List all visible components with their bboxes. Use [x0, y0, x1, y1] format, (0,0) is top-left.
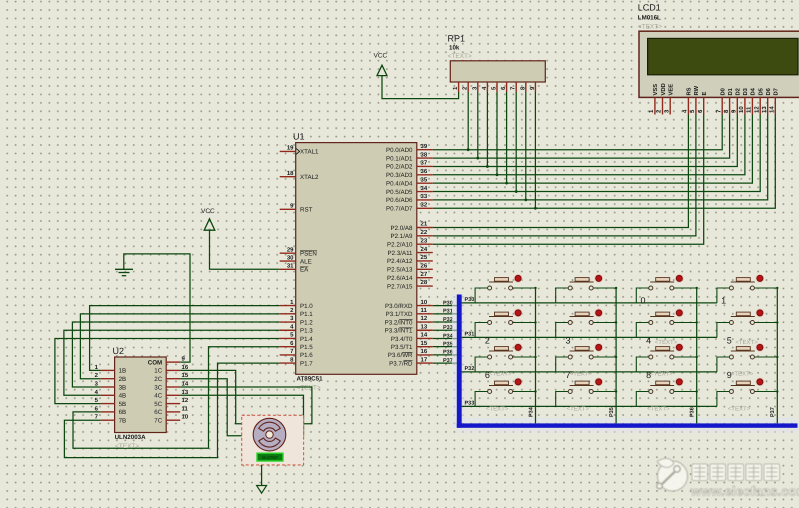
pin 39 (P0.0/AD0) of U1	[386, 143, 433, 154]
wire P3.5 to bus, net P35	[433, 341, 457, 347]
svg-text:VCC: VCC	[374, 53, 388, 60]
pin 5 of RP1	[491, 82, 498, 92]
svg-text:P31: P31	[465, 332, 475, 338]
key label 4	[646, 336, 651, 346]
svg-text:5: 5	[727, 336, 732, 346]
svg-text:XTAL2: XTAL2	[300, 174, 319, 181]
svg-text:P1.5: P1.5	[300, 344, 313, 351]
power terminal VCC (RP1)	[374, 53, 388, 76]
svg-text:RST: RST	[300, 207, 313, 214]
button row1 col1	[475, 274, 537, 303]
wire RP1 pin 9 to P0.7 net	[534, 92, 537, 210]
pin 13 (D6) of LCD1	[761, 87, 772, 114]
key label 5	[727, 336, 732, 346]
svg-text:P36: P36	[443, 350, 453, 356]
svg-text:D4: D4	[751, 87, 757, 95]
pin 19 (XTAL1) of U1	[280, 145, 319, 156]
wire RP1 pin 8 to P0.6 net	[524, 92, 527, 201]
svg-text:4B: 4B	[119, 393, 127, 400]
keypad row wire P31	[462, 332, 717, 338]
wire P3.4 to bus, net P34	[433, 333, 457, 339]
svg-text:18: 18	[287, 170, 294, 177]
svg-text:ALE: ALE	[300, 258, 312, 265]
pin 6 (P1.5) of U1	[280, 340, 314, 351]
svg-text:28: 28	[421, 279, 428, 286]
keypad column wire P34	[528, 288, 535, 423]
label U1 TEXT	[297, 385, 321, 392]
svg-text:P32: P32	[465, 366, 475, 372]
pin 22 (P2.1/A9) of U1	[390, 229, 432, 240]
svg-text:3: 3	[290, 315, 294, 322]
svg-text:29: 29	[287, 246, 294, 253]
wire RP1 pin 5 to P0.3 net	[496, 92, 499, 176]
wire P3.1 to bus, net P31	[433, 309, 457, 315]
pin 10 (7C output) of U2	[154, 414, 189, 425]
svg-text:2: 2	[656, 109, 663, 113]
svg-text:4: 4	[646, 336, 651, 346]
pin 3 (P1.2) of U1	[280, 315, 314, 326]
pin 27 (P2.6/A14) of U1	[387, 271, 433, 282]
wire ground to U2 COM pin 9	[124, 254, 190, 362]
svg-text:1: 1	[721, 295, 726, 305]
svg-text:38: 38	[421, 151, 428, 158]
svg-text:P0.2/AD2: P0.2/AD2	[386, 164, 413, 171]
pin 4 (1B input 4) of U2	[95, 389, 127, 400]
svg-text:U2: U2	[113, 346, 125, 356]
wire P0.5 to LCD D5	[433, 115, 760, 192]
svg-text:<TEXT>: <TEXT>	[728, 406, 751, 413]
button row3 col3	[636, 343, 698, 372]
pin 2 (1B input 2) of U2	[95, 372, 127, 383]
pin 16 (1C output) of U2	[154, 364, 189, 375]
svg-text:4: 4	[290, 323, 294, 330]
button row2 col3	[636, 309, 698, 338]
svg-text:P37: P37	[770, 407, 776, 417]
svg-text:RW: RW	[694, 85, 700, 95]
svg-text:VDD: VDD	[661, 83, 667, 95]
svg-text:3C: 3C	[154, 384, 162, 391]
svg-text:26: 26	[421, 263, 428, 270]
svg-text:0: 0	[641, 295, 646, 305]
svg-text:14: 14	[421, 332, 428, 339]
svg-text:10: 10	[182, 414, 189, 421]
motor value label box	[257, 453, 283, 461]
svg-text:P3.2/INT0: P3.2/INT0	[385, 319, 413, 326]
key label 1	[721, 295, 726, 305]
svg-text:23: 23	[421, 237, 428, 244]
key label 9	[727, 370, 732, 380]
button row1 col2	[556, 274, 618, 303]
svg-text:34: 34	[421, 185, 428, 192]
wire P0.7 to LCD D7	[433, 115, 776, 209]
svg-text:P33: P33	[465, 401, 475, 407]
pin 14 (P3.4/T0) of U1	[391, 332, 433, 343]
pin 35 (P0.4/AD4) of U1	[386, 176, 433, 187]
pin 26 (P2.5/A13) of U1	[387, 263, 433, 274]
svg-text:E: E	[702, 92, 708, 96]
svg-text:39: 39	[421, 143, 428, 150]
key label 8	[646, 370, 651, 380]
svg-text:7B: 7B	[119, 418, 127, 425]
wire VCC to RP1 pin 1	[382, 76, 459, 99]
svg-text:13: 13	[761, 106, 768, 113]
wire U2 2C to motor left-bottom	[180, 379, 253, 436]
svg-text:<TEXT>: <TEXT>	[655, 339, 678, 346]
wire P3.2 to bus, net P32	[433, 317, 457, 323]
svg-text:4: 4	[682, 109, 689, 113]
pin 15 (2C output) of U2	[154, 372, 189, 383]
pin 7 of RP1	[510, 82, 517, 92]
pin 6 (E) of LCD1	[697, 92, 708, 115]
wire RP1 pin 6 to P0.4 net	[505, 92, 508, 185]
bus halo	[452, 295, 798, 434]
key label 2	[485, 336, 490, 346]
svg-text:VSS: VSS	[652, 84, 659, 96]
svg-text:P1.1: P1.1	[300, 311, 313, 318]
pin 24 (P2.3/A11) of U1	[388, 246, 433, 257]
svg-text:2: 2	[290, 307, 294, 314]
svg-text:P31: P31	[443, 309, 453, 315]
wire P0.3 to LCD D3	[433, 115, 745, 175]
svg-text:11: 11	[746, 106, 753, 113]
svg-text:P2.3/A11: P2.3/A11	[388, 250, 414, 257]
pin 1 of RP1	[452, 82, 459, 92]
svg-text:6C: 6C	[154, 409, 162, 416]
svg-text:RS: RS	[686, 87, 693, 95]
svg-text:P32: P32	[443, 317, 453, 323]
svg-text:P2.0/A8: P2.0/A8	[390, 225, 413, 232]
pin 34 (P0.5/AD5) of U1	[386, 185, 433, 196]
pin 12 (5C output) of U2	[154, 397, 189, 408]
svg-text:3B: 3B	[119, 384, 127, 391]
svg-text:10: 10	[738, 106, 745, 113]
pin 14 (3C output) of U2	[154, 381, 189, 392]
watermark logo	[657, 458, 688, 491]
button row1 col3	[636, 274, 698, 303]
wire P3.0 to bus, net P30	[433, 300, 457, 306]
svg-text:D2: D2	[735, 88, 742, 95]
bus horizontal segment	[457, 423, 798, 427]
wire P2.1 to LCD RW	[433, 115, 696, 236]
pin 11 (D4) of LCD1	[746, 87, 757, 114]
pin 3 of RP1	[471, 82, 478, 92]
svg-text:8: 8	[723, 109, 730, 113]
svg-text:5C: 5C	[154, 401, 162, 408]
keypad column wire P35	[609, 288, 616, 423]
pin 9 of RP1	[529, 82, 536, 92]
keypad column wire P36	[690, 288, 697, 423]
svg-text:10: 10	[421, 299, 428, 306]
wire P1.0 to U2 pin 1	[90, 306, 280, 371]
svg-text:D6: D6	[765, 87, 772, 95]
pin 31 (EA) of U1	[280, 263, 309, 274]
svg-text:19: 19	[287, 145, 294, 152]
svg-text:24: 24	[421, 246, 428, 253]
svg-text:P0.6/AD6: P0.6/AD6	[386, 197, 413, 204]
wire VCC to EA pin 31	[210, 230, 280, 269]
svg-text:COM: COM	[148, 359, 162, 366]
svg-text:U1: U1	[293, 132, 305, 142]
pin 28 (P2.7/A15) of U1	[387, 279, 433, 290]
svg-text:P1.3: P1.3	[300, 328, 313, 335]
svg-text:P33: P33	[443, 325, 453, 331]
button row4 col3	[636, 378, 698, 407]
pin 30 (ALE) of U1	[280, 254, 312, 265]
pin 9 (RST) of U1	[280, 203, 313, 214]
svg-text:P0.7/AD7: P0.7/AD7	[386, 206, 413, 213]
pin 21 (P2.0/A8) of U1	[390, 221, 432, 232]
svg-text:P35: P35	[609, 407, 615, 417]
svg-text:D5: D5	[759, 87, 765, 95]
display LCD1 (LM016L)	[638, 3, 661, 22]
svg-text:25: 25	[421, 254, 428, 261]
IC U1 (AT89C51 microcontroller)	[293, 132, 417, 383]
ground terminal below motor	[257, 486, 267, 494]
keypad row wire P32	[462, 366, 717, 372]
pin 9 (D2) of LCD1	[731, 88, 742, 114]
pin 8 of RP1	[519, 82, 526, 92]
pin 17 (P3.7/) of U1	[389, 356, 433, 367]
svg-text:13: 13	[421, 323, 428, 330]
wire P2.0 to LCD RS	[433, 115, 689, 228]
pin 7 (D0) of LCD1	[715, 88, 726, 114]
wire P1.4 to U2 pin 5	[55, 338, 280, 403]
svg-text:P34: P34	[528, 406, 534, 417]
wire motor to ground	[261, 465, 263, 486]
svg-text:9: 9	[731, 109, 738, 113]
svg-text:D7: D7	[774, 88, 780, 95]
svg-text:<TEXT>: <TEXT>	[638, 24, 662, 31]
svg-text:1: 1	[290, 299, 294, 306]
svg-text:P0.1/AD1: P0.1/AD1	[386, 155, 413, 162]
pin 36 (P0.3/AD3) of U1	[386, 168, 433, 179]
wire U2 1C to motor left-top	[180, 370, 253, 423]
svg-text:P30: P30	[465, 297, 475, 303]
svg-text:5: 5	[290, 332, 294, 339]
keypad row wire P33	[462, 401, 717, 407]
pin 23 (P2.2/A10) of U1	[387, 237, 433, 248]
label U2 TEXT	[115, 443, 139, 450]
svg-text:<TEXT>: <TEXT>	[647, 406, 670, 413]
pin 13 (4C output) of U2	[154, 389, 189, 400]
pin 5 (1B input 5) of U2	[95, 397, 127, 408]
wire RP1 pin 4 to P0.2 net	[486, 92, 489, 168]
svg-text:D1: D1	[728, 87, 734, 95]
svg-text:12: 12	[753, 106, 760, 113]
svg-text:22: 22	[421, 229, 428, 236]
svg-text:P2.6/A14: P2.6/A14	[387, 275, 413, 282]
clock symbol on XTAL1 pin	[296, 148, 300, 154]
svg-text:M-STEP: M-STEP	[262, 455, 278, 460]
pin 3 (VEE) of LCD1	[663, 84, 674, 115]
pin 7 (1B input 7) of U2	[95, 414, 127, 425]
svg-text:VCC: VCC	[201, 208, 215, 215]
button row1 col4	[717, 274, 779, 303]
svg-text:<TEXT>: <TEXT>	[448, 53, 472, 60]
pin 16 (P3.6/) of U1	[388, 348, 433, 359]
pin 4 (P1.3) of U1	[280, 323, 314, 334]
LCD1 body	[639, 31, 799, 97]
svg-text:<TEXT>: <TEXT>	[486, 406, 509, 413]
wire RP1 pin 3 to P0.1 net	[476, 92, 479, 159]
svg-text:11: 11	[421, 307, 428, 314]
svg-text:7: 7	[715, 109, 722, 113]
wire P1.1 to U2 pin 2	[80, 314, 279, 379]
svg-text:RP1: RP1	[448, 34, 466, 44]
IC U2 (ULN2003A driver)	[113, 346, 167, 441]
pin 1 (1B input 1) of U2	[95, 364, 127, 375]
svg-text:P37: P37	[443, 358, 453, 364]
pin 8 (D1) of LCD1	[723, 87, 734, 114]
wire P0.0 to LCD D0	[433, 115, 722, 150]
button row4 col1	[475, 378, 537, 407]
svg-text:P0.5/AD5: P0.5/AD5	[386, 189, 413, 196]
wire P0.6 to LCD D6	[433, 115, 768, 200]
svg-text:LCD1: LCD1	[638, 3, 661, 13]
pin 4 (RS) of LCD1	[682, 87, 693, 114]
wire P3.7 to bus, net P37	[433, 358, 457, 364]
wire P3.3 to bus, net P33	[433, 325, 457, 331]
pin 6 (1B input 6) of U2	[95, 405, 127, 416]
svg-text:VEE: VEE	[669, 84, 675, 96]
pin 1 (VSS) of LCD1	[648, 84, 659, 115]
svg-text:P0.3/AD3: P0.3/AD3	[386, 172, 413, 179]
wire P0.4 to LCD D4	[433, 115, 753, 184]
svg-text:6: 6	[697, 109, 704, 113]
svg-text:P1.0: P1.0	[300, 303, 313, 310]
svg-text:37: 37	[421, 160, 428, 167]
pin 6 of RP1	[500, 82, 507, 92]
svg-text:8: 8	[290, 356, 294, 363]
svg-text:32: 32	[421, 201, 428, 208]
svg-text:9: 9	[290, 203, 294, 210]
ground symbol	[115, 269, 133, 275]
svg-text:<TEXT>: <TEXT>	[735, 339, 758, 346]
svg-text:9: 9	[182, 355, 186, 362]
svg-text:<TEXT>: <TEXT>	[297, 385, 321, 392]
svg-text:<TEXT>: <TEXT>	[650, 371, 673, 378]
svg-text:2C: 2C	[154, 376, 162, 383]
button row4 col2	[556, 378, 618, 407]
wire P0.1 to LCD D1	[433, 115, 730, 159]
button row3 col4	[717, 343, 779, 372]
pin 38 (P0.1/AD1) of U1	[386, 151, 433, 162]
svg-text:P3.7/RD: P3.7/RD	[389, 360, 413, 367]
pin 7 (P1.6) of U1	[280, 348, 314, 359]
pin 1 (P1.0) of U1	[280, 299, 314, 310]
svg-text:P1.2: P1.2	[300, 319, 313, 326]
svg-text:7: 7	[290, 348, 294, 355]
svg-text:<TEXT>: <TEXT>	[115, 443, 139, 450]
wire P1.5 to U2 pin 6 (routed below)	[73, 347, 280, 449]
svg-text:<TEXT>: <TEXT>	[489, 371, 512, 378]
key label 7	[566, 370, 571, 380]
wire P1.3 to U2 pin 4	[64, 330, 280, 395]
pin 14 (D7) of LCD1	[769, 88, 780, 114]
pin 2 (P1.1) of U1	[280, 307, 314, 318]
pin 5 (P1.4) of U1	[280, 332, 314, 343]
keypad TEXT labels	[486, 339, 758, 413]
wire RP1 pin 7 to P0.5 net	[515, 92, 518, 193]
svg-text:P3.3/INT1: P3.3/INT1	[385, 328, 413, 335]
power terminal VCC (EA pin)	[201, 208, 215, 230]
button row2 col1	[475, 309, 537, 338]
pin 2 (VDD) of LCD1	[656, 83, 667, 114]
wire U2 3C to motor right-top	[180, 387, 312, 424]
keypad column wire P37	[770, 288, 777, 423]
pin 11 (6C output) of U2	[154, 405, 188, 416]
pin 2 of RP1	[462, 82, 469, 92]
svg-text:AT89C51: AT89C51	[297, 376, 324, 383]
svg-text:5B: 5B	[119, 401, 127, 408]
svg-text:16: 16	[421, 348, 428, 355]
pin 18 (XTAL2) of U1	[280, 170, 319, 181]
pin 32 (P0.7/AD7) of U1	[386, 201, 433, 212]
svg-text:P2.7/A15: P2.7/A15	[387, 283, 413, 290]
pin 37 (P0.2/AD2) of U1	[386, 160, 433, 171]
svg-text:1: 1	[648, 109, 655, 113]
pin 8 (P1.7) of U1	[280, 356, 314, 367]
svg-text:P1.4: P1.4	[300, 336, 313, 343]
svg-text:LM016L: LM016L	[638, 15, 661, 22]
svg-text:35: 35	[421, 176, 428, 183]
svg-text:6B: 6B	[119, 409, 127, 416]
svg-text:4C: 4C	[154, 393, 162, 400]
wire P2.2 to LCD E	[433, 115, 704, 245]
label LCD1 TEXT	[638, 24, 662, 31]
wire U2 4C to motor right-bottom	[180, 395, 303, 436]
keypad row wire P30	[462, 297, 717, 303]
svg-text:P1.7: P1.7	[300, 360, 313, 367]
pin 33 (P0.6/AD6) of U1	[386, 193, 433, 204]
svg-text:2B: 2B	[119, 376, 127, 383]
svg-text:1B: 1B	[119, 368, 127, 375]
wire P3.6 to bus, net P36	[433, 350, 457, 356]
pin 5 (RW) of LCD1	[689, 85, 700, 114]
svg-text:P3.1/TXD: P3.1/TXD	[386, 311, 413, 318]
svg-text:2: 2	[485, 336, 490, 346]
pin 4 of RP1	[481, 82, 488, 92]
svg-text:D0: D0	[720, 88, 727, 95]
svg-text:11: 11	[182, 405, 189, 412]
svg-text:<TEXT>: <TEXT>	[731, 371, 754, 378]
svg-text:6: 6	[290, 340, 294, 347]
pin 13 (P3.3/) of U1	[385, 323, 433, 334]
svg-text:P0.0/AD0: P0.0/AD0	[386, 147, 413, 154]
pin 9 (COM) of U2	[148, 355, 186, 366]
button row4 col4	[717, 378, 779, 407]
bus vertical segment	[457, 295, 462, 428]
button row3 col2	[556, 343, 618, 372]
wire P1.7 to U2 pin 7 (routed below)	[64, 363, 279, 458]
svg-text:3: 3	[663, 109, 670, 113]
key label 6	[485, 370, 490, 380]
svg-text:D3: D3	[742, 87, 749, 95]
svg-text:17: 17	[421, 356, 428, 363]
watermark text	[690, 464, 799, 499]
pin 12 (D5) of LCD1	[753, 87, 764, 114]
svg-text:12: 12	[421, 315, 428, 322]
svg-text:30: 30	[287, 254, 294, 261]
pin 10 (P3.0/RXD) of U1	[385, 299, 433, 310]
motor M1 (stepper)	[253, 418, 286, 451]
svg-text:14: 14	[769, 106, 776, 113]
svg-text:P2.4/A12: P2.4/A12	[387, 258, 413, 265]
svg-text:3: 3	[566, 336, 571, 346]
svg-text:15: 15	[421, 340, 428, 347]
svg-text:P35: P35	[443, 341, 453, 347]
key label 0	[641, 295, 646, 305]
